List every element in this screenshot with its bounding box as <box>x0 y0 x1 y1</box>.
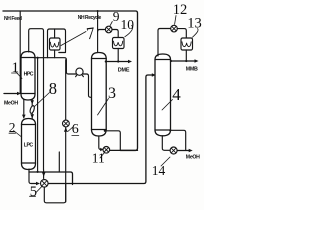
pump P5 <box>41 180 49 188</box>
label 14 <box>161 157 170 166</box>
valve V8 lens <box>29 105 35 114</box>
wire MeOH feed arrow <box>4 93 19 95</box>
node dot C3 dome right <box>104 130 106 132</box>
wire C2 reboiler line y172 <box>29 172 73 185</box>
wire P5 outlet to right <box>48 75 153 184</box>
wire HPC dome to exchanger header y58 <box>34 58 76 74</box>
wire HPC overhead loop1 <box>29 29 44 170</box>
wire C3 reboiler loop <box>105 131 121 151</box>
exchanger E7 box <box>50 38 61 50</box>
column C3 <box>92 53 107 137</box>
pump P14 <box>170 147 177 154</box>
pump P11 <box>103 147 110 154</box>
wire E7 bottom stub <box>54 50 56 58</box>
wire E13 outlet <box>185 50 187 61</box>
node dot x37.6 y57.7 <box>37 57 39 59</box>
svg-text:11: 11 <box>92 151 105 166</box>
exchanger E7 loop top <box>48 29 66 58</box>
column C2 LPC <box>22 119 36 170</box>
svg-text:13: 13 <box>187 16 202 32</box>
wire E10 outlet to DME line <box>117 49 119 62</box>
wire C3 reflux drop x97.6 <box>97 11 99 53</box>
svg-text:8: 8 <box>49 79 57 98</box>
wire E7 top stub <box>54 29 56 38</box>
label 5 <box>30 195 36 197</box>
wire DME product line <box>106 61 129 63</box>
label 2 <box>9 132 16 134</box>
wire pump to C3 feed <box>83 74 91 97</box>
svg-text:NH Feed: NH Feed <box>4 16 22 22</box>
wire C3 bottoms to P11 <box>99 136 101 150</box>
label 7 <box>61 32 86 46</box>
wire C1 bottom to C2 top right line with valve V8 <box>31 100 33 119</box>
label 8 <box>35 93 50 107</box>
svg-text:2: 2 <box>9 120 16 135</box>
svg-text:9: 9 <box>113 9 120 24</box>
valve V6 circle on line <box>65 60 67 202</box>
svg-text:LPC: LPC <box>24 142 34 148</box>
label 3 <box>98 99 109 116</box>
label 13 <box>193 29 199 38</box>
wire P5 bottom loop rectangle <box>44 184 65 203</box>
pump P12 <box>171 25 178 32</box>
label 11 <box>100 153 104 158</box>
wire vertical x37.6 <box>37 58 39 172</box>
leader lines <box>9 16 198 197</box>
label 1 <box>12 72 19 74</box>
pump P (circle with feet) between E7 and C3 <box>76 68 84 77</box>
svg-text:1: 1 <box>12 60 20 76</box>
label 12 <box>175 16 176 25</box>
wire C4 reflux drop x158 <box>157 31 159 57</box>
svg-text:MeOH: MeOH <box>4 101 18 107</box>
wire C4 reboiler loop <box>170 130 185 150</box>
wire P14 outlet MeOH arrow <box>177 150 189 152</box>
condenser E13 box <box>181 38 193 50</box>
condenser E10 box <box>113 38 125 49</box>
wire stub x59.3 <box>58 152 60 172</box>
wire MMB product line <box>171 60 196 62</box>
wire P11 outlet joins riser x137.5 <box>110 149 138 151</box>
arrow into pump5 top <box>42 172 46 176</box>
svg-text:7: 7 <box>85 23 96 43</box>
node junction top line x98 <box>97 10 99 12</box>
column C4 <box>155 54 171 136</box>
label 4 <box>162 100 173 111</box>
svg-text:12: 12 <box>173 2 188 18</box>
wire P12 to E13 <box>177 29 186 38</box>
svg-text:14: 14 <box>152 163 166 178</box>
svg-text:NH Recycle: NH Recycle <box>78 15 102 21</box>
svg-text:6: 6 <box>72 122 79 137</box>
svg-text:HPC: HPC <box>24 72 34 78</box>
wire C2 bottoms <box>29 169 37 184</box>
svg-text:DME: DME <box>118 67 130 73</box>
wire C1 bottom to C2 top left line <box>23 100 25 118</box>
svg-text:4: 4 <box>172 85 181 104</box>
label 9 <box>110 22 112 26</box>
label 6 <box>72 135 79 137</box>
pump P9 <box>98 30 106 32</box>
wire NH feed drop <box>19 11 21 94</box>
svg-text:3: 3 <box>108 85 116 102</box>
wire P9 to E10 <box>112 30 118 38</box>
wire C4 bottoms to P14 <box>162 136 170 151</box>
svg-text:5: 5 <box>30 184 37 200</box>
svg-text:10: 10 <box>121 17 135 32</box>
svg-text:MeOH: MeOH <box>186 155 200 161</box>
column C1 HPC <box>21 52 35 101</box>
wire NH recycle top line <box>3 11 138 150</box>
svg-text:MMB: MMB <box>186 67 198 73</box>
label 10 <box>125 26 133 37</box>
